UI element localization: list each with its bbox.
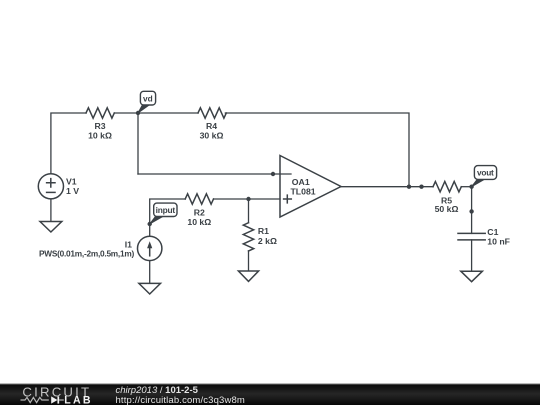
svg-text:50 kΩ: 50 kΩ xyxy=(435,204,459,214)
inverting input wire + pin xyxy=(138,173,291,175)
wire V1 bottom xyxy=(50,199,52,221)
resistor R5 xyxy=(433,182,461,192)
voltage source V1 xyxy=(38,174,63,199)
input node junction xyxy=(148,222,152,226)
svg-text:10 kΩ: 10 kΩ xyxy=(187,217,211,227)
node vd junction xyxy=(136,111,140,115)
svg-text:R3: R3 xyxy=(94,121,105,131)
wire I1 bottom xyxy=(149,261,151,284)
ground for V1 xyxy=(40,222,62,233)
wire R1 to ground xyxy=(248,251,250,271)
svg-text:TL081: TL081 xyxy=(291,186,316,196)
footer bar xyxy=(0,383,540,405)
svg-text:input: input xyxy=(156,205,176,215)
current source I1 xyxy=(138,236,162,260)
resistor R2 xyxy=(185,194,213,204)
net flag input xyxy=(150,203,177,224)
wire V1 top to R3 xyxy=(51,113,86,174)
svg-text:LAB: LAB xyxy=(64,395,92,405)
C1 top terminal junction xyxy=(469,209,473,213)
net flag vd xyxy=(138,91,156,113)
svg-text:vout: vout xyxy=(477,168,494,178)
resistor R4 xyxy=(198,108,226,118)
ground for C1 xyxy=(461,271,483,282)
feedback-output junction xyxy=(407,185,411,189)
junction dots xyxy=(136,111,474,226)
vout node junction xyxy=(469,185,473,189)
logo resistor squiggle xyxy=(21,397,49,402)
wire input corner to R2 xyxy=(150,199,186,236)
wire R5 to vout node xyxy=(461,186,471,188)
logo diode xyxy=(51,396,57,403)
svg-text:R1: R1 xyxy=(258,226,269,236)
inverting pin junction xyxy=(271,172,275,176)
wire vd to R4 xyxy=(138,112,198,114)
svg-text:30 kΩ: 30 kΩ xyxy=(200,131,224,141)
svg-text:PWS(0.01m,-2m,0.5m,1m): PWS(0.01m,-2m,0.5m,1m) xyxy=(39,248,135,258)
svg-text:R2: R2 xyxy=(194,207,205,217)
svg-text:10 nF: 10 nF xyxy=(487,237,510,247)
plus sign xyxy=(284,195,292,203)
svg-text:R4: R4 xyxy=(206,121,217,131)
svg-text:vd: vd xyxy=(143,94,153,104)
non-inverting input wire xyxy=(249,198,281,200)
svg-text:2 kΩ: 2 kΩ xyxy=(258,236,277,246)
wire C1 to ground xyxy=(471,240,473,271)
svg-text:C1: C1 xyxy=(487,227,498,237)
output wire xyxy=(341,186,433,188)
svg-text:10 kΩ: 10 kΩ xyxy=(88,131,112,141)
wire R3 to vd node xyxy=(114,112,138,114)
resistor R1 (vertical) xyxy=(243,223,253,251)
wire vout down to C1 xyxy=(471,187,473,234)
wire R2 to +input junction xyxy=(214,198,249,200)
ground for R1 xyxy=(238,271,258,281)
resistor R3 xyxy=(86,108,114,118)
wire R4 to output (feedback) xyxy=(225,113,409,187)
svg-text:http://circuitlab.com/c3q3w8m: http://circuitlab.com/c3q3w8m xyxy=(116,395,245,405)
wire vd down to inverting input xyxy=(137,113,139,174)
op-amp OA1 triangle xyxy=(280,156,341,218)
non-inverting junction xyxy=(246,197,250,201)
capacitor C1 xyxy=(458,233,485,240)
wire junction down to R1 xyxy=(248,199,250,223)
ground for I1 xyxy=(139,283,161,294)
svg-text:1 V: 1 V xyxy=(66,186,79,196)
net flag vout xyxy=(472,166,497,187)
R5 left terminal junction xyxy=(419,185,423,189)
